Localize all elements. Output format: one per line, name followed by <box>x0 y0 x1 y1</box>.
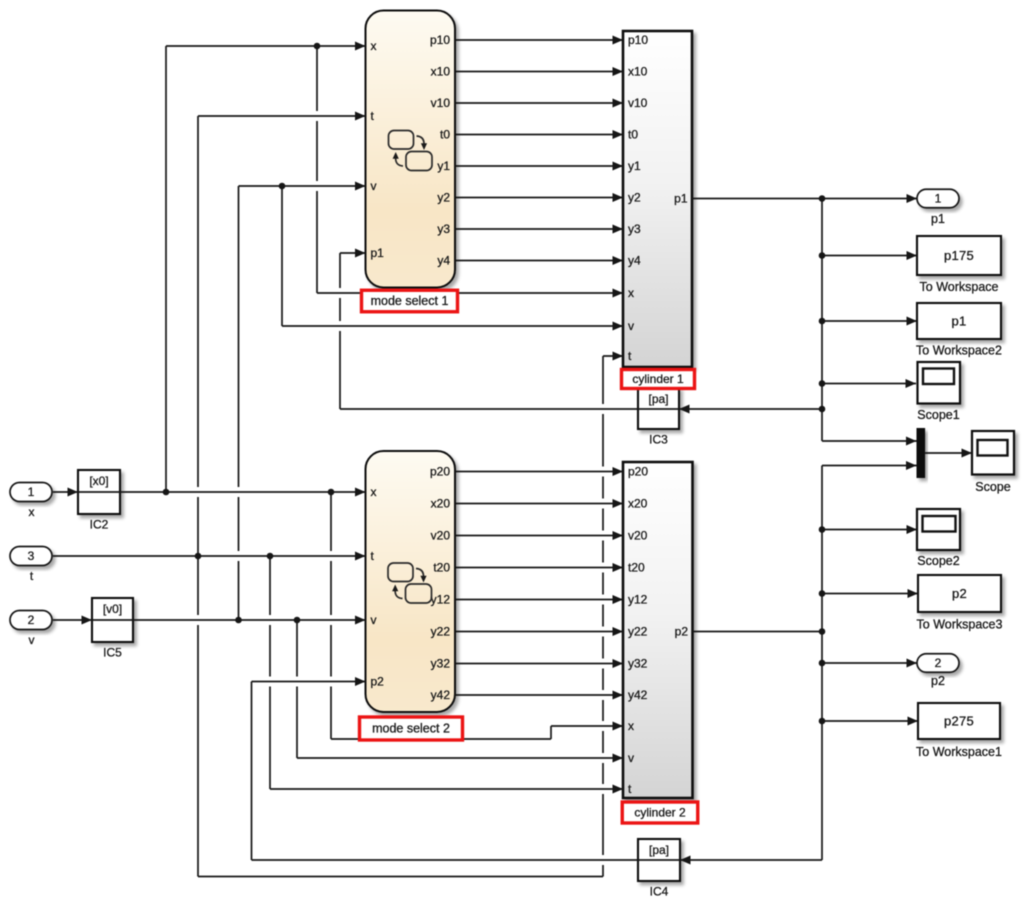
label mode select 1 (red highlight box) <box>362 290 458 312</box>
svg-text:[pa]: [pa] <box>648 392 668 406</box>
junction p2 at 721 <box>819 718 826 725</box>
arrowhead into cylinder 2 v input <box>613 754 624 763</box>
svg-text:2: 2 <box>935 656 942 670</box>
junction p2 at 529.5 <box>819 526 826 533</box>
junction v net at (238.5,620) <box>235 617 242 624</box>
arrowhead y22 into cylinder 2 <box>613 627 624 636</box>
svg-text:y3: y3 <box>628 222 641 236</box>
wire t20: mode select 2 to cylinder 2 <box>455 567 623 569</box>
arrowhead into IC4 (left-pointing) <box>680 856 691 865</box>
To Workspace2 block p1 <box>917 303 1001 339</box>
wire p1 branch to Scope1 <box>822 383 916 385</box>
wire v net riser to mode select 1 <box>238 186 240 620</box>
arrowhead into cylinder 2 t input <box>613 785 624 794</box>
svg-text:To Workspace3: To Workspace3 <box>917 618 1003 632</box>
svg-text:v20: v20 <box>431 529 451 543</box>
svg-text:p1: p1 <box>931 212 945 226</box>
junction x net at (317,46) <box>314 43 321 50</box>
svg-text:p175: p175 <box>944 248 974 263</box>
svg-text:y12: y12 <box>431 593 451 607</box>
svg-text:IC5: IC5 <box>103 646 122 660</box>
svg-text:x20: x20 <box>628 497 648 511</box>
wire t: inport 3 to mode select 2 t input <box>53 555 366 557</box>
junction p2 at 663 <box>819 660 826 667</box>
junction p2 trunk feed <box>819 628 826 635</box>
arrowhead x20 into cylinder 2 <box>613 499 624 508</box>
wire v to cylinder 1 v input <box>282 325 623 327</box>
svg-text:x: x <box>371 39 377 53</box>
svg-text:t0: t0 <box>440 128 450 142</box>
wire x net jog riser <box>550 726 552 739</box>
svg-text:y1: y1 <box>437 159 450 173</box>
svg-text:IC3: IC3 <box>649 433 668 447</box>
wire p2 branch to outport 2 <box>822 662 917 664</box>
junction p1 at 255.5 <box>819 252 826 259</box>
To Workspace block p175 <box>917 236 1001 275</box>
mux block <box>917 428 926 478</box>
wire x to cylinder 2 x input lower segment <box>331 738 551 740</box>
wire y22: mode select 2 to cylinder 2 <box>455 631 623 633</box>
svg-text:p1: p1 <box>951 313 966 328</box>
wire p2 branch to To Workspace1 p275 <box>822 720 918 722</box>
wire t0: mode select 1 to cylinder 1 <box>455 134 623 136</box>
svg-text:v: v <box>29 633 35 647</box>
arrowhead into mode select 2 x input <box>355 488 366 497</box>
arrowhead p20 into cylinder 2 <box>613 467 624 476</box>
svg-text:p20: p20 <box>628 465 648 479</box>
wire x to mode select 1 x input <box>166 45 366 47</box>
arrowhead into Scope1 <box>906 379 917 388</box>
svg-text:[x0]: [x0] <box>89 474 108 488</box>
svg-text:y32: y32 <box>628 657 648 671</box>
wire y42: mode select 2 to cylinder 2 <box>455 694 623 696</box>
Scope2 block <box>917 509 960 550</box>
stateflow icon in mode select 1 <box>389 131 433 171</box>
arrowhead into outport 2 <box>907 659 918 668</box>
svg-text:To Workspace2: To Workspace2 <box>916 344 1002 358</box>
svg-text:[pa]: [pa] <box>649 843 669 857</box>
subsystem block cylinder 1 <box>623 31 692 367</box>
outport 1 (p1) <box>917 189 959 208</box>
wire t net dropper to cylinder 2 <box>269 556 271 789</box>
svg-text:Scope: Scope <box>975 480 1010 494</box>
wire t net spine x=198 <box>197 116 199 877</box>
wire v net dropper to cylinder 1 <box>281 186 283 326</box>
wire p2: cylinder 2 output to trunk <box>693 631 823 633</box>
junction p1 at 409 <box>819 406 826 413</box>
svg-text:[v0]: [v0] <box>103 602 122 616</box>
inport 1 (x) <box>10 483 52 502</box>
inport 3 (t) <box>10 547 52 566</box>
svg-text:y32: y32 <box>431 657 451 671</box>
svg-text:t0: t0 <box>628 128 638 142</box>
arrowhead into IC5 <box>82 616 93 625</box>
wire v net dropper to cylinder 2 <box>296 620 298 758</box>
wire y3: mode select 1 to cylinder 1 <box>455 228 623 230</box>
svg-text:y4: y4 <box>628 254 641 268</box>
outport 2 (p2) <box>917 654 959 673</box>
svg-text:cylinder 2: cylinder 2 <box>634 806 686 820</box>
svg-text:y3: y3 <box>437 222 450 236</box>
svg-text:p10: p10 <box>628 33 648 47</box>
arrowhead into outport 1 <box>907 194 918 203</box>
svg-text:y42: y42 <box>628 688 648 702</box>
label mode select 2 (red highlight box) <box>360 717 463 740</box>
svg-text:v10: v10 <box>628 96 648 110</box>
wire t bottom run to cylinder 1 t <box>198 876 603 878</box>
svg-text:To Workspace: To Workspace <box>920 280 999 294</box>
IC block IC5 value [v0] <box>92 598 133 660</box>
svg-text:y22: y22 <box>431 625 451 639</box>
wire t net riser x=603 <box>602 356 604 877</box>
arrowhead into cylinder 1 t input <box>613 352 624 361</box>
label cylinder 1 (red highlight box) <box>622 370 695 389</box>
wire IC4 output run left (through IC4 interior) <box>252 859 681 861</box>
wire y4: mode select 1 to cylinder 1 <box>455 260 623 262</box>
svg-text:x20: x20 <box>431 497 451 511</box>
stateflow icon in mode select 2 <box>388 563 432 603</box>
junction t net at (270,556) <box>267 553 274 560</box>
svg-text:p1: p1 <box>371 246 385 260</box>
arrowhead into p175 <box>907 251 918 260</box>
junction p2 at 593.5 <box>819 590 826 597</box>
svg-text:p10: p10 <box>430 33 450 47</box>
svg-text:v: v <box>371 613 377 627</box>
junction p1 at 383.5 <box>819 380 826 387</box>
wire p1: cylinder 1 output to outport 1 <box>692 198 917 200</box>
subsystem block cylinder 2 <box>623 462 693 798</box>
svg-text:x: x <box>628 286 634 300</box>
svg-text:1: 1 <box>28 485 35 499</box>
arrowhead into mode select 2 v input <box>355 616 366 625</box>
wire t to cylinder 2 t input <box>270 788 623 790</box>
wire v: inport 2 through IC5 to mode select 2 v input <box>53 619 366 621</box>
wire p2 into mode select 2 p2 input <box>252 681 366 683</box>
wire x20: mode select 2 to cylinder 2 <box>455 503 623 505</box>
arrowhead x10 into cylinder 1 <box>613 67 624 76</box>
svg-text:p2: p2 <box>675 625 689 639</box>
Scope block <box>972 431 1014 475</box>
arrowhead into Scope <box>962 449 973 458</box>
arrowhead y2 into cylinder 1 <box>613 193 624 202</box>
arrowhead y4 into cylinder 1 <box>613 256 624 265</box>
wire p1 to mux input 1 <box>822 440 917 442</box>
svg-text:p275: p275 <box>944 713 974 728</box>
svg-text:x: x <box>628 719 634 733</box>
arrowhead into mode select 1 v input <box>355 182 366 191</box>
arrowhead into Scope2 <box>907 525 918 534</box>
arrowhead into cylinder 1 v input <box>613 322 624 331</box>
wire v20: mode select 2 to cylinder 2 <box>455 535 623 537</box>
wire x: inport 1 through IC2 to mode select 2 x input <box>53 491 366 493</box>
junction x net at (166,492) <box>163 489 170 496</box>
svg-text:3: 3 <box>28 549 35 563</box>
arrowhead p10 into cylinder 1 <box>613 36 624 45</box>
Stateflow chart block mode select 1 <box>366 11 456 288</box>
IC block IC3 value [pa] (mirrored) <box>638 388 679 447</box>
svg-text:y22: y22 <box>628 625 648 639</box>
wire x to cylinder 1 x input <box>317 292 623 294</box>
wire t into cylinder 1 t input <box>603 355 623 357</box>
arrowhead y1 into cylinder 1 <box>613 162 624 171</box>
wire x net dropper to cylinder 2 <box>330 492 332 739</box>
Stateflow chart block mode select 2 <box>366 451 456 712</box>
svg-text:t20: t20 <box>433 561 450 575</box>
inport 2 (v) <box>10 611 52 630</box>
arrowhead into IC2 <box>68 488 79 497</box>
svg-text:v20: v20 <box>628 529 648 543</box>
svg-text:p1: p1 <box>674 192 688 206</box>
wire IC3 output riser x=340 <box>339 253 341 409</box>
wire y12: mode select 2 to cylinder 2 <box>455 599 623 601</box>
arrowhead into cylinder 1 x input <box>613 289 624 298</box>
arrowhead into p275 <box>908 717 919 726</box>
arrowhead into mode select 2 p2 input <box>355 677 366 686</box>
arrowhead v10 into cylinder 1 <box>613 99 624 108</box>
wire mux output to Scope <box>925 452 972 454</box>
svg-text:y12: y12 <box>628 593 648 607</box>
wire v to cylinder 2 v input <box>297 757 623 759</box>
arrowhead into p2 workspace <box>908 589 919 598</box>
arrowhead into IC3 (left-pointing) <box>679 405 690 414</box>
svg-text:v: v <box>628 319 634 333</box>
svg-text:1: 1 <box>935 192 942 206</box>
arrowhead into mux input 1 <box>906 437 917 446</box>
IC block IC4 value [pa] (mirrored) <box>638 839 680 899</box>
wire p2 bottom run to IC4 input <box>680 859 822 861</box>
wire p10: mode select 1 to cylinder 1 <box>455 39 623 41</box>
svg-text:x: x <box>371 485 377 499</box>
IC block IC2 value [x0] <box>78 470 120 532</box>
svg-text:2: 2 <box>28 613 35 627</box>
svg-text:x10: x10 <box>431 65 451 79</box>
svg-text:y2: y2 <box>628 191 641 205</box>
svg-text:y1: y1 <box>628 159 641 173</box>
wire p1 branch to IC3 input <box>679 408 822 410</box>
wire v10: mode select 1 to cylinder 1 <box>455 102 623 104</box>
arrowhead t20 into cylinder 2 <box>613 563 624 572</box>
junction v net at (297,620) <box>294 617 301 624</box>
svg-text:Scope1: Scope1 <box>917 408 959 422</box>
svg-text:p2: p2 <box>371 675 385 689</box>
arrowhead into mode select 1 p1 input <box>355 249 366 258</box>
svg-text:y2: y2 <box>437 191 450 205</box>
wire p20: mode select 2 to cylinder 2 <box>455 471 623 473</box>
arrowhead into mode select 1 t input <box>355 112 366 121</box>
wire v to mode select 1 v input <box>239 185 366 187</box>
svg-text:v: v <box>371 179 377 193</box>
wire x net dropper to cylinder 1 <box>316 46 318 293</box>
To Workspace1 block p275 <box>918 703 1000 739</box>
arrowhead into mux input 2 <box>906 461 917 470</box>
junction v net at (282,186) <box>279 183 286 190</box>
wire IC3 output run left (through IC3 interior) <box>340 408 679 410</box>
svg-text:x10: x10 <box>628 65 648 79</box>
wire y2: mode select 1 to cylinder 1 <box>455 197 623 199</box>
label cylinder 2 (red highlight box) <box>622 802 698 823</box>
wire p1 branch to To Workspace2 p1 <box>822 320 917 322</box>
junction p1 trunk top <box>819 195 826 202</box>
svg-text:mode select 2: mode select 2 <box>372 722 450 736</box>
arrowhead y42 into cylinder 2 <box>613 691 624 700</box>
arrowhead into cylinder 2 x input <box>613 722 624 731</box>
wire x to cylinder 2 x input <box>551 725 623 727</box>
svg-text:To Workspace1: To Workspace1 <box>916 745 1002 759</box>
wire p2 branch to To Workspace3 <box>822 593 918 595</box>
svg-text:x: x <box>29 505 35 519</box>
wire p1 branch to To Workspace p175 <box>822 255 917 257</box>
svg-text:mode select 1: mode select 1 <box>371 294 449 308</box>
svg-text:p2: p2 <box>931 674 945 688</box>
junction t net at (198,556) <box>195 553 202 560</box>
arrowhead y32 into cylinder 2 <box>613 659 624 668</box>
Scope1 block <box>918 362 961 404</box>
svg-text:p20: p20 <box>430 465 450 479</box>
junction x net at (331,492) <box>328 489 335 496</box>
svg-text:y42: y42 <box>431 688 451 702</box>
wire x10: mode select 1 to cylinder 1 <box>455 71 623 73</box>
wire y32: mode select 2 to cylinder 2 <box>455 663 623 665</box>
svg-text:t20: t20 <box>628 561 645 575</box>
svg-text:cylinder 1: cylinder 1 <box>632 372 684 386</box>
wire x net riser to mode select 1 <box>165 46 167 492</box>
arrowhead y12 into cylinder 2 <box>613 595 624 604</box>
arrowhead v20 into cylinder 2 <box>613 531 624 540</box>
To Workspace3 block p2 <box>918 575 1001 612</box>
wire p2 to mux input 2 <box>822 465 917 467</box>
wire y1: mode select 1 to cylinder 1 <box>455 165 623 167</box>
arrowhead into mode select 2 t input <box>355 552 366 561</box>
arrowhead into mode select 1 x input <box>355 42 366 51</box>
svg-text:Scope2: Scope2 <box>917 554 959 568</box>
svg-text:v: v <box>628 751 634 765</box>
wire p1 into mode select 1 p1 input <box>340 252 366 254</box>
arrowhead into p1 workspace <box>907 317 918 326</box>
arrowhead y3 into cylinder 1 <box>613 225 624 234</box>
wire p2 branch to Scope2 <box>822 529 917 531</box>
svg-text:p2: p2 <box>952 586 967 601</box>
svg-text:v10: v10 <box>431 96 451 110</box>
junction p1 at 321 <box>819 318 826 325</box>
svg-text:IC4: IC4 <box>650 885 669 899</box>
wire IC4 output riser x=251.5 <box>251 682 253 861</box>
arrowhead t0 into cylinder 1 <box>613 130 624 139</box>
svg-text:IC2: IC2 <box>90 518 109 532</box>
wire p1 trunk x=822 <box>821 199 823 442</box>
wire t to mode select 1 t input <box>198 115 366 117</box>
svg-text:y4: y4 <box>437 254 450 268</box>
wire p2 trunk x=822 <box>821 466 823 861</box>
